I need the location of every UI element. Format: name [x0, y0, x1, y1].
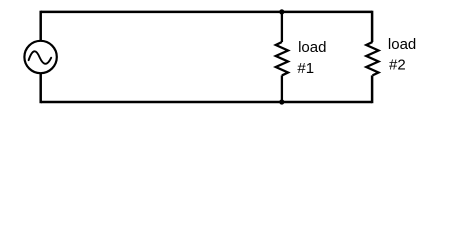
- wire right upper lead: [371, 11, 374, 42]
- svg-text:load: load: [388, 36, 416, 53]
- resistor load #1: [276, 42, 288, 75]
- svg-text:#2: #2: [389, 57, 406, 74]
- resistor load #2: [366, 42, 378, 75]
- svg-text:#1: #1: [297, 60, 314, 77]
- wire left lower: [39, 73, 42, 103]
- svg-text:load: load: [298, 39, 326, 56]
- junction dot bottom node: [279, 99, 284, 104]
- AC source V1 circle: [24, 41, 56, 73]
- wire branch load #1 upper lead: [281, 12, 283, 42]
- wire right lower lead: [371, 75, 374, 103]
- junction dot top node: [279, 9, 284, 14]
- wire top: [41, 11, 372, 14]
- wire bottom: [41, 101, 372, 104]
- wire left upper: [39, 11, 42, 42]
- wire branch load #1 lower lead: [281, 75, 283, 102]
- AC source V1 sine wave: [29, 51, 52, 64]
